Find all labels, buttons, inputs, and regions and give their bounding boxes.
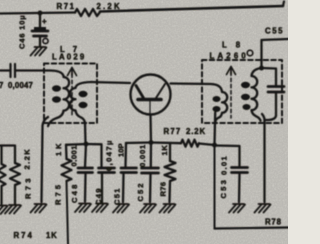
svg-text:2.2K: 2.2K <box>97 2 122 11</box>
wire C53 to ground <box>238 174 241 203</box>
capacitor C52 <box>142 168 159 173</box>
wire L8 primary bottom down <box>213 113 216 146</box>
transformer L7 shield box <box>44 64 97 124</box>
capacitor C53 <box>232 168 248 173</box>
wire C47 to L7 <box>15 69 47 71</box>
svg-text:0.001: 0.001 <box>70 145 79 167</box>
resistor R75 branch <box>65 145 68 159</box>
L7 core <box>71 74 73 117</box>
svg-text:0,0047: 0,0047 <box>8 81 33 90</box>
svg-text:7: 7 <box>0 81 3 90</box>
ground under C51 <box>113 204 129 213</box>
svg-text:C49: C49 <box>94 187 103 205</box>
capacitor C46 (electrolytic) <box>32 31 48 36</box>
wire C55 branch <box>262 39 289 68</box>
svg-text:R73: R73 <box>24 175 33 199</box>
node L7 bottom bus junction <box>84 142 89 147</box>
wire top rail right <box>100 6 283 12</box>
wire bus L7-secondary left <box>66 143 86 146</box>
svg-text:1K: 1K <box>46 231 58 240</box>
wire left input row <box>0 146 15 164</box>
ground under C48 <box>75 204 91 213</box>
ground under C49 <box>92 204 108 213</box>
wire L8 secondary bottom to ground <box>262 114 265 202</box>
wire bus emitter left <box>126 141 151 144</box>
svg-text:LA029: LA029 <box>52 53 86 62</box>
wire input from left edge <box>0 69 10 71</box>
svg-text:10P: 10P <box>117 143 126 157</box>
capacitor C52 branch <box>150 143 152 168</box>
wire C46 to ground <box>39 36 41 46</box>
node emitter junction <box>149 140 154 145</box>
wire L7 secondary bottom down <box>84 123 87 143</box>
ground under C46 <box>31 47 47 56</box>
ground under C53 <box>229 204 245 213</box>
svg-text:0.01: 0.01 <box>220 155 229 175</box>
svg-text:0.001: 0.001 <box>138 144 147 167</box>
wire top rail left <box>0 13 75 14</box>
L8 secondary winding <box>252 68 262 121</box>
L8 primary winding <box>211 84 227 123</box>
resistor R76 <box>165 161 176 181</box>
svg-text:R78: R78 <box>265 218 282 227</box>
ground under R73 <box>5 205 21 214</box>
svg-text:R76: R76 <box>159 182 168 197</box>
L7 tuning arrow <box>68 68 77 76</box>
wire C46 drop <box>39 13 41 29</box>
wire rail right end tick <box>283 2 284 7</box>
svg-text:R75: R75 <box>54 182 63 205</box>
svg-text:R74: R74 <box>14 231 34 240</box>
ground under C52 <box>140 204 156 213</box>
svg-text:0,047µ: 0,047µ <box>105 139 114 171</box>
transistor Q1 <box>131 75 171 115</box>
svg-text:C55: C55 <box>265 27 284 36</box>
svg-text:C53: C53 <box>219 178 228 199</box>
svg-text:C52: C52 <box>136 182 145 202</box>
wire collector to L8 <box>171 82 212 85</box>
node R77/L8/C53 junction <box>212 143 217 148</box>
ground under R72 <box>0 206 8 215</box>
svg-text:2.2K: 2.2K <box>186 127 206 136</box>
resistor R73 <box>10 163 20 185</box>
terminal circle near C46 <box>43 38 48 43</box>
resistor R77 <box>181 140 199 147</box>
svg-text:1K: 1K <box>160 145 169 156</box>
capacitor C51 branch <box>124 143 127 167</box>
resistor R71 <box>75 9 100 16</box>
svg-text:LA260: LA260 <box>210 52 249 61</box>
terminal circle near L8 <box>247 50 253 56</box>
svg-text:C46 10µ: C46 10µ <box>18 15 27 49</box>
capacitor C47 <box>11 64 16 77</box>
resistor R76 branch <box>169 143 171 161</box>
ground under L8 <box>255 204 271 213</box>
L8 tuning arrow <box>227 67 236 75</box>
wire bus emitter right <box>151 141 181 144</box>
wire L7 primary bottom to ground <box>42 117 49 202</box>
wire bottom rail <box>215 228 289 229</box>
transformer L8 shield box <box>202 60 282 123</box>
svg-text:1K: 1K <box>54 141 63 156</box>
L8 core <box>230 72 232 118</box>
capacitor C49 <box>99 168 115 173</box>
svg-text:C48: C48 <box>70 182 79 203</box>
ground under R76 <box>160 204 176 213</box>
wire L7 secondary to base <box>91 82 130 83</box>
ground under L7 <box>31 204 47 213</box>
capacitor C53 branch wire <box>215 146 240 167</box>
svg-text:+: + <box>42 17 47 26</box>
node junction on rail <box>38 11 43 16</box>
svg-text:L 8: L 8 <box>222 41 244 50</box>
node L8 top junction <box>259 66 264 71</box>
svg-text:R71: R71 <box>57 2 76 11</box>
wire bus L7-secondary right <box>86 144 102 167</box>
L7 primary winding <box>47 70 69 126</box>
resistor R75 <box>62 159 72 181</box>
wire junction down to bottom rail <box>214 145 216 229</box>
resistor R72 partial at left edge <box>0 146 6 204</box>
capacitor C48 branch <box>85 144 86 167</box>
svg-text:R77: R77 <box>164 127 182 136</box>
wire emitter down <box>149 115 152 143</box>
wire R75 down to bottom edge <box>67 181 69 244</box>
capacitor C51 <box>121 168 137 173</box>
resonating capacitor of L8 <box>262 68 277 85</box>
svg-text:C51: C51 <box>113 187 122 205</box>
svg-text:2.2K: 2.2K <box>23 148 32 170</box>
L7 secondary winding <box>70 82 91 123</box>
capacitor C48 <box>78 168 93 173</box>
